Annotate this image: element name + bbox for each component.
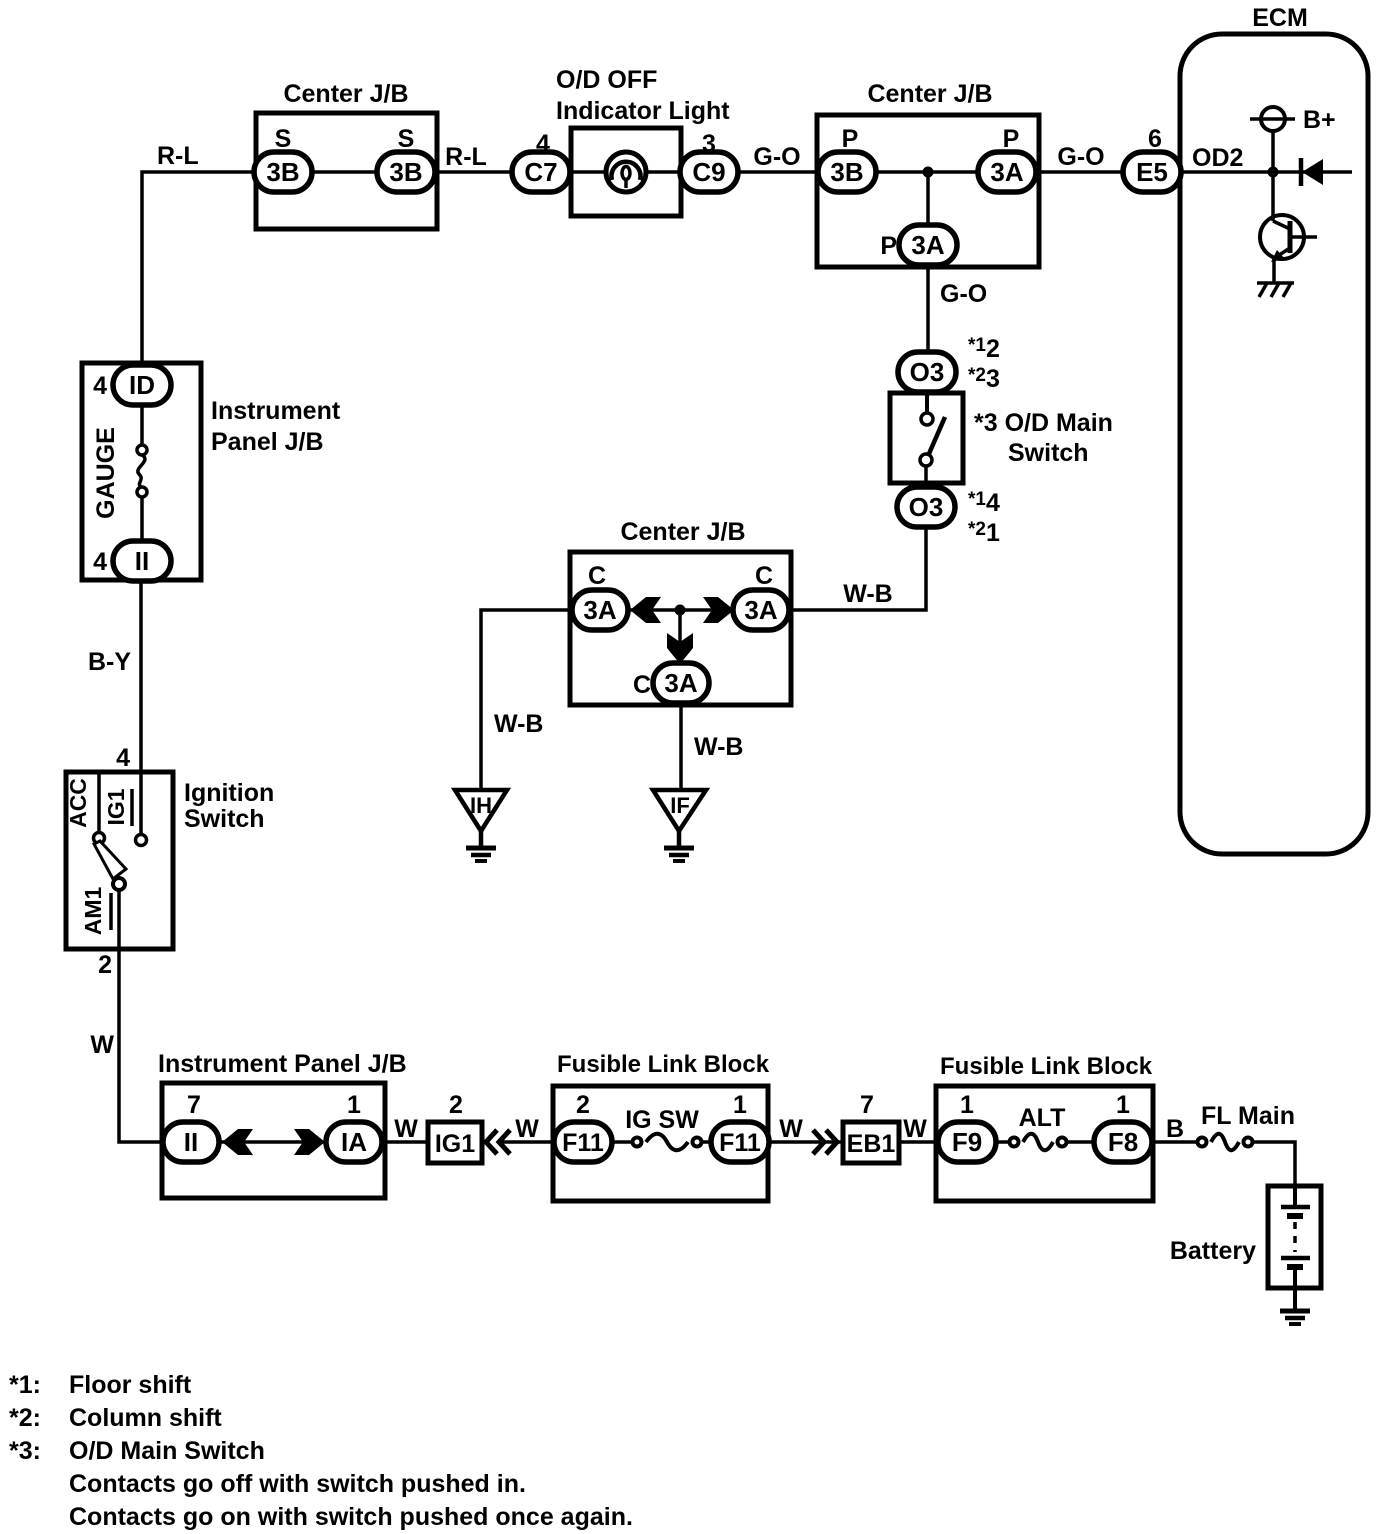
svg-text:1: 1 [960, 1091, 974, 1119]
svg-text:Contacts go off with switch pu: Contacts go off with switch pushed in. [69, 1470, 526, 1498]
svg-text:Ignition: Ignition [184, 779, 274, 807]
connector 3B right [377, 152, 435, 192]
svg-text:S: S [275, 125, 292, 153]
wire B from F8 to FL Main [1152, 1140, 1198, 1144]
svg-text:IA: IA [341, 1127, 367, 1157]
svg-text:R-L: R-L [445, 143, 487, 171]
connector O3 top [898, 352, 956, 392]
svg-text:P: P [880, 232, 897, 260]
svg-text:2: 2 [449, 1091, 463, 1119]
ground IH [455, 790, 507, 847]
connector O3 bottom [897, 487, 955, 527]
diode D1 (cathode left) [1301, 158, 1323, 186]
transistor Q1 [1260, 172, 1317, 282]
svg-text:II: II [135, 546, 149, 576]
wire R-L from Center J/B to C7 [435, 170, 514, 174]
wire B-Y from II to ignition switch [139, 581, 143, 772]
svg-text:3A: 3A [911, 230, 944, 260]
indicator lamp bulb symbol [606, 152, 646, 192]
terminal ACC [94, 772, 105, 844]
svg-text:Center J/B: Center J/B [867, 80, 992, 108]
svg-text:Fusible Link Block: Fusible Link Block [940, 1053, 1153, 1080]
svg-text:Instrument: Instrument [211, 397, 341, 425]
svg-text:G-O: G-O [1057, 143, 1104, 171]
connector F8 [1094, 1122, 1152, 1162]
svg-text:Contacts go on with switch pus: Contacts go on with switch pushed once a… [69, 1503, 633, 1531]
svg-text:Panel J/B: Panel J/B [211, 428, 324, 456]
connector II bottom [163, 1122, 219, 1162]
wire W from F11 to IG1 [501, 1140, 555, 1144]
connector 3B (Center J/B right) [818, 152, 876, 192]
svg-text:W-B: W-B [843, 580, 892, 608]
svg-text:Indicator Light: Indicator Light [556, 97, 730, 125]
svg-text:ACC: ACC [65, 778, 91, 828]
arrow left [630, 597, 661, 623]
svg-text:3B: 3B [266, 157, 299, 187]
svg-text:F8: F8 [1108, 1127, 1138, 1157]
wire between 3B connectors [283, 170, 406, 174]
svg-text:W: W [90, 1031, 114, 1059]
connector 3B left [254, 152, 312, 192]
B+ terminal [1250, 107, 1295, 131]
svg-text:B: B [1166, 1115, 1184, 1143]
svg-text:O/D OFF: O/D OFF [556, 66, 657, 94]
wire from fusible link to F8 [1066, 1140, 1094, 1144]
connector C7 [512, 152, 570, 192]
svg-text:6: 6 [1148, 125, 1162, 153]
svg-text:O/D Main Switch: O/D Main Switch [69, 1437, 265, 1465]
connector 3A bottom (middle J/B) [653, 663, 709, 703]
connector 3A left (middle J/B) [572, 590, 628, 630]
O/D main switch box [890, 393, 963, 483]
svg-text:P: P [1003, 125, 1020, 153]
svg-text:Column shift: Column shift [69, 1404, 222, 1432]
ECM box [1180, 34, 1368, 854]
ground bars IF [664, 848, 694, 861]
junction node P [923, 167, 934, 178]
svg-text:F9: F9 [952, 1127, 982, 1157]
svg-text:S: S [398, 125, 415, 153]
Fusible Link Block box 2 [936, 1086, 1153, 1201]
wire through indicator light [571, 170, 681, 174]
wire W from F11 to EB1 [769, 1140, 843, 1144]
svg-text:4: 4 [93, 372, 107, 400]
svg-text:3B: 3B [389, 157, 422, 187]
connector EB1 box [843, 1122, 899, 1163]
svg-text:W-B: W-B [494, 710, 543, 738]
connector F11 right [711, 1122, 769, 1162]
svg-text:Switch: Switch [1008, 439, 1089, 467]
svg-text:Center J/B: Center J/B [283, 80, 408, 108]
connector 3A bottom [899, 225, 957, 265]
Instrument Panel J/B box (bottom) [162, 1083, 385, 1198]
svg-text:7: 7 [187, 1091, 201, 1119]
svg-text:*3 O/D Main: *3 O/D Main [974, 409, 1113, 437]
connector F9 [938, 1122, 996, 1162]
ground bars battery [1280, 1311, 1310, 1324]
svg-text:C7: C7 [524, 157, 557, 187]
Battery box [1268, 1186, 1321, 1288]
svg-text:OD2: OD2 [1192, 144, 1243, 172]
connector IG1 box [428, 1122, 482, 1163]
svg-text:II: II [184, 1127, 198, 1157]
svg-text:ALT: ALT [1019, 1104, 1066, 1132]
svg-text:C: C [755, 562, 773, 590]
svg-text:Fusible Link Block: Fusible Link Block [557, 1051, 770, 1078]
svg-text:Instrument Panel J/B: Instrument Panel J/B [158, 1050, 407, 1078]
wire R-L from Center J/B 3B to Instrument Panel J/B ID [142, 172, 254, 366]
wire between II and IA [220, 1140, 325, 1144]
svg-text:Center J/B: Center J/B [620, 518, 745, 546]
svg-text:3A: 3A [664, 668, 697, 698]
svg-text:E5: E5 [1136, 157, 1168, 187]
wire from junction down to 3A bottom [926, 172, 930, 228]
wire W from IA to IG1 [382, 1140, 428, 1144]
svg-text:AM1: AM1 [80, 887, 106, 936]
wire to fusible link ALT [996, 1140, 1010, 1144]
svg-text:B-Y: B-Y [88, 648, 131, 676]
svg-text:2: 2 [576, 1091, 590, 1119]
fusible link FL Main [1198, 1134, 1253, 1151]
connector F11 left [554, 1122, 612, 1162]
svg-text:4: 4 [116, 744, 130, 772]
svg-text:2: 2 [98, 951, 112, 979]
Fusible Link Block box 1 [553, 1086, 768, 1201]
connector 3A right (middle J/B) [733, 590, 789, 630]
terminal AM1 [111, 890, 119, 949]
Ignition Switch box [66, 772, 173, 949]
svg-text:C9: C9 [692, 157, 725, 187]
wire G-O from C9 to Center J/B [738, 170, 818, 174]
wire W-B to ground IF [679, 705, 683, 788]
svg-text:O3: O3 [910, 357, 945, 387]
wire G-O from 3A to E5 [1036, 170, 1124, 174]
svg-text:F11: F11 [562, 1129, 604, 1157]
connector C9 [680, 152, 738, 192]
svg-text:*2:: *2: [9, 1404, 41, 1432]
switch blade [94, 841, 126, 890]
wire across middle J/B [600, 608, 761, 612]
chevrons into IG1 [486, 1130, 510, 1154]
chevrons into EB1 [813, 1130, 837, 1154]
wire W from EB1 to F9 [899, 1140, 938, 1144]
svg-text:Floor shift: Floor shift [69, 1371, 192, 1399]
svg-text:C: C [588, 562, 606, 590]
svg-text:F11: F11 [719, 1129, 761, 1157]
connector 3A right [978, 152, 1036, 192]
svg-text:W: W [515, 1115, 539, 1143]
svg-text:3A: 3A [990, 157, 1023, 187]
svg-text:W: W [394, 1115, 418, 1143]
connector IA [326, 1122, 382, 1162]
Center J/B box (middle) [570, 552, 791, 705]
junction node C [675, 605, 686, 616]
svg-text:4: 4 [93, 548, 107, 576]
svg-text:3A: 3A [583, 595, 616, 625]
wire G-O from 3A bottom down to O3 [926, 265, 930, 353]
svg-text:*1:: *1: [9, 1371, 41, 1399]
terminal IG1 [132, 772, 147, 846]
ground bars IH [466, 848, 496, 861]
Center J/B box (top left) [256, 113, 437, 229]
svg-text:EB1: EB1 [847, 1130, 896, 1158]
wire from battery to ground [1293, 1288, 1297, 1310]
wire W-B from O3 to Center J/B 3A [792, 527, 926, 610]
svg-text:IG SW: IG SW [625, 1106, 699, 1134]
svg-text:1: 1 [347, 1091, 361, 1119]
svg-text:ID: ID [129, 370, 155, 400]
svg-text:*3:: *3: [9, 1437, 41, 1465]
fusible link IG SW [633, 1134, 702, 1151]
connector E5 [1123, 152, 1181, 192]
svg-text:C: C [633, 671, 651, 699]
svg-text:GAUGE: GAUGE [92, 427, 120, 519]
svg-text:Battery: Battery [1170, 1237, 1256, 1265]
svg-text:Switch: Switch [184, 805, 265, 833]
O/D main switch SW1 contacts [920, 393, 945, 483]
svg-text:IF: IF [670, 793, 690, 818]
wire inside Center J/B [847, 170, 1007, 174]
wire to fusible link IG SW [612, 1140, 633, 1144]
fusible link ALT [1010, 1134, 1067, 1151]
svg-text:O3: O3 [909, 492, 944, 522]
wire OD2 inside ECM [1181, 170, 1352, 174]
svg-text:G-O: G-O [753, 143, 800, 171]
svg-text:R-L: R-L [157, 142, 199, 170]
svg-text:1: 1 [733, 1091, 747, 1119]
svg-text:ECM: ECM [1252, 4, 1308, 32]
svg-text:W-B: W-B [694, 733, 743, 761]
ground IF [653, 790, 706, 847]
arrow right [703, 597, 734, 623]
Center J/B box (top right) [817, 115, 1039, 267]
wire W-B to ground IH [481, 610, 572, 788]
svg-text:7: 7 [860, 1091, 874, 1119]
Instrument Panel J/B box (left) [82, 363, 201, 580]
GAUGE fuse symbol [137, 405, 147, 541]
svg-text:P: P [842, 125, 859, 153]
wire W from AM1 to Instrument Panel J/B II [119, 949, 163, 1142]
svg-text:W: W [779, 1115, 803, 1143]
connector II [113, 541, 171, 581]
wire down from junction [678, 610, 682, 662]
wire from B+ to OD2 node [1271, 131, 1275, 172]
O/D OFF indicator light box [571, 128, 681, 216]
svg-text:W: W [903, 1115, 927, 1143]
svg-text:3A: 3A [744, 595, 777, 625]
svg-text:3B: 3B [830, 157, 863, 187]
svg-text:G-O: G-O [940, 280, 987, 308]
svg-text:IG1: IG1 [103, 788, 129, 825]
junction node OD2 [1268, 167, 1279, 178]
svg-text:FL Main: FL Main [1201, 1102, 1295, 1130]
battery BAT1 cells [1281, 1186, 1310, 1288]
connector ID [113, 365, 171, 405]
arrow down [667, 633, 693, 664]
arrow right (IA) [294, 1129, 325, 1155]
svg-text:IG1: IG1 [435, 1130, 475, 1158]
svg-text:IH: IH [470, 793, 492, 818]
svg-text:B+: B+ [1303, 106, 1336, 134]
wire from FL Main to battery [1252, 1142, 1295, 1188]
ECM internal ground [1257, 283, 1294, 297]
arrow left (II) [222, 1129, 253, 1155]
wire from fusible link to F11 [701, 1140, 711, 1144]
svg-text:1: 1 [1116, 1091, 1130, 1119]
